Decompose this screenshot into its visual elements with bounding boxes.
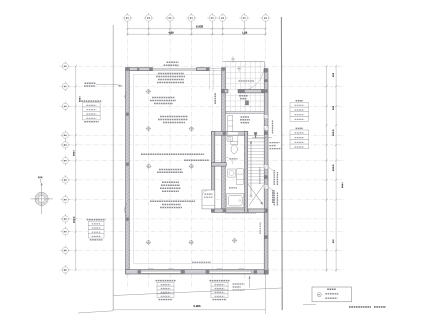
label true north (38, 176, 43, 178)
finish table left upper (81, 101, 101, 122)
label porch sliding door (239, 80, 255, 82)
exterior wall top segment 2 (197, 68, 210, 71)
note column hall right (272, 121, 274, 134)
bottom dimension line (113, 304, 265, 310)
column symbols at grid intersections (146, 89, 237, 245)
note long line mid (141, 153, 204, 155)
closet bump left wall (212, 132, 215, 212)
stair door leaf wedge (254, 132, 257, 139)
genkan door post (246, 101, 249, 105)
north compass (31, 179, 53, 214)
grade leader line (113, 288, 281, 296)
exterior wall left (126, 68, 130, 274)
horizontal grid lines Y12-Y1 (70, 66, 345, 270)
corner extension line (265, 274, 267, 314)
note water heater block (156, 74, 185, 83)
legend box (312, 287, 352, 302)
rotated note east boundary (272, 190, 274, 203)
rotated note stair side (259, 167, 261, 234)
wash basin (227, 137, 232, 142)
right wall window W4a (264, 115, 268, 119)
svg-text:6.905: 6.905 (196, 25, 204, 29)
left wall break arc lower (125, 203, 127, 217)
note pillar caption (252, 138, 281, 149)
genkan step band (226, 111, 264, 113)
void upper-floor outline (134, 74, 265, 263)
porch bottom wall segment A (221, 89, 228, 93)
label genkan (239, 96, 248, 99)
hall door swing arc (228, 135, 238, 145)
note under-core dims (225, 212, 256, 214)
left dimension line (74, 65, 80, 271)
genkan tile grid (225, 93, 264, 111)
porch bottom wall segment B (238, 89, 264, 93)
short rule under legend (303, 303, 316, 305)
top dimension line row 1 (6.905) (126, 23, 266, 35)
annex label (204, 194, 213, 197)
washroom door arc (226, 158, 233, 165)
annex door arc (202, 190, 208, 196)
label dressing (229, 187, 237, 189)
exterior wall right (264, 69, 268, 275)
footer note (349, 306, 386, 308)
annex room (202, 190, 215, 209)
note fridge block (157, 170, 183, 173)
porch step edge lines (209, 68, 221, 70)
svg-text:4.88: 4.88 (168, 31, 174, 34)
bathtub (227, 194, 244, 208)
shoe cabinet (228, 116, 233, 132)
stair up arrow (250, 141, 252, 197)
left wall break arc upper (125, 92, 127, 101)
level marker ticks (231, 57, 241, 72)
window note column 2 (274, 191, 277, 206)
porch side strip lines (209, 68, 213, 89)
exterior wall bottom (126, 270, 269, 274)
label washroom (230, 158, 238, 160)
table2 leader arrow (249, 276, 251, 288)
hall divider wall (212, 132, 248, 136)
room label LDK block (160, 182, 181, 191)
stair lower flight arrows (248, 184, 264, 206)
note ceiling LED block (150, 98, 176, 104)
note roof load (164, 62, 179, 65)
right wall window W4b (264, 126, 268, 130)
entrance door swing arc (239, 69, 264, 91)
rotated note void upper (214, 93, 216, 105)
label hall (240, 117, 250, 123)
note beside bottom table (233, 284, 245, 290)
core left wall (222, 68, 226, 213)
window note column 1 (274, 170, 277, 185)
toilet (231, 142, 238, 154)
svg-text:5.905: 5.905 (194, 304, 201, 308)
site boundary line right (280, 17, 283, 310)
bottom window W3 (209, 270, 251, 273)
shelf unit (237, 169, 244, 185)
exterior wall top-left segment (126, 68, 153, 71)
bottom window W2 swing arcs (146, 268, 176, 270)
finish table right upper (290, 101, 309, 121)
core bottom wall (212, 209, 267, 213)
svg-text:1.08: 1.08 (242, 31, 248, 34)
stair left wall (245, 132, 248, 213)
right dimension lines (326, 65, 343, 272)
finish table bottom 2 (210, 281, 230, 300)
stair treads (248, 136, 264, 184)
top window W1 (153, 68, 197, 70)
note high window (192, 261, 211, 263)
entrance porch tile grid (226, 61, 264, 89)
bottom window W3 swing arcs (214, 268, 246, 270)
note existing condition left (84, 83, 123, 87)
right wall window W5a (264, 165, 268, 170)
top dimension line row 2 (4.88 / 1.08) (126, 31, 266, 35)
grid bubbles X1-X8 (122, 13, 270, 23)
grid bubbles Y12-Y1 (60, 61, 70, 274)
note kitchen line (184, 159, 209, 161)
site boundary line left (112, 25, 114, 311)
bottom window W2 (141, 270, 181, 273)
bottom-left slant line (78, 311, 113, 313)
finish table left lower (87, 220, 106, 240)
vertical grid lines X1-X8 (127, 23, 265, 287)
note boundary clearance block (158, 117, 188, 123)
note floor pipe block (150, 201, 195, 207)
porch canopy edge line (223, 61, 265, 68)
laundry machine (228, 169, 236, 177)
right wall window W5b (264, 185, 268, 190)
finish table right lower (290, 128, 309, 148)
finish table bottom 1 (156, 281, 176, 300)
closet divider wall (212, 163, 227, 167)
window leader lines (268, 167, 273, 191)
